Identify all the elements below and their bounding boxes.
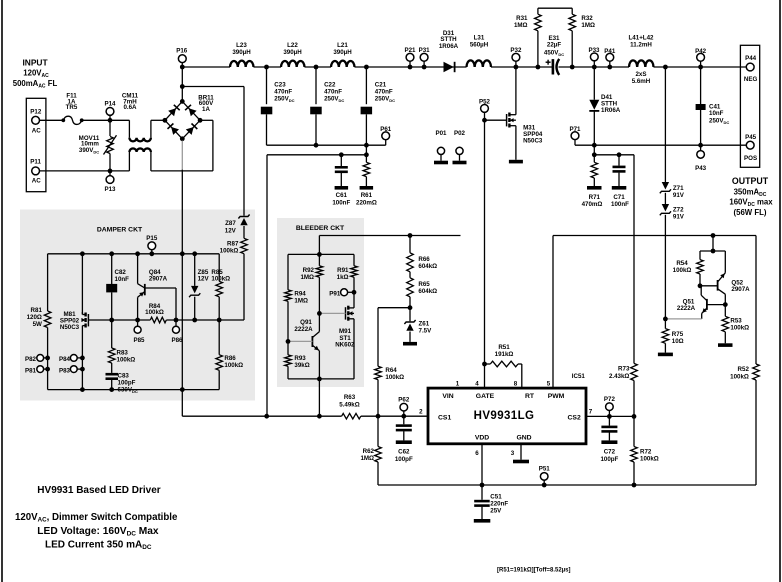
svg-text:P61: P61 (380, 126, 392, 133)
svg-text:INPUT: INPUT (22, 58, 48, 68)
svg-text:[R51=191kΩ][Toff=8.52µs]: [R51=191kΩ][Toff=8.52µs] (497, 567, 571, 573)
svg-text:P52: P52 (479, 99, 491, 106)
svg-text:5.6mH: 5.6mH (632, 78, 651, 85)
capacitor C22 (315, 67, 317, 104)
resistor R64 (377, 308, 379, 367)
Q51 emitter wire (665, 318, 701, 320)
svg-text:LED Current 350 mADC: LED Current 350 mADC (45, 539, 152, 551)
transistor Q52 (698, 283, 703, 288)
terminal P61 (382, 132, 390, 140)
svg-text:390µH: 390µH (333, 49, 352, 56)
svg-text:P31: P31 (419, 47, 431, 54)
svg-text:5W: 5W (33, 321, 42, 328)
fuse F11 (61, 118, 65, 122)
svg-text:1MΩ: 1MΩ (360, 455, 374, 462)
terminal P42 (697, 53, 705, 61)
svg-text:P15: P15 (146, 235, 158, 242)
svg-text:5.49kΩ: 5.49kΩ (339, 402, 359, 409)
terminal P12 (32, 116, 40, 124)
page border right (779, 0, 781, 582)
svg-text:604kΩ: 604kΩ (418, 288, 437, 295)
svg-text:500mAAC FL: 500mAAC FL (13, 79, 58, 90)
terminal P01 (437, 147, 444, 154)
svg-text:L21: L21 (337, 42, 348, 49)
svg-text:R66: R66 (418, 256, 430, 263)
svg-text:100kΩ: 100kΩ (640, 456, 659, 463)
svg-text:R52: R52 (738, 366, 750, 373)
svg-text:NEG: NEG (744, 76, 758, 83)
wire P12 to fuse (40, 119, 64, 121)
bleeder top rail (288, 253, 354, 255)
inductor L41+L42 (629, 60, 654, 67)
svg-text:TR5: TR5 (66, 104, 78, 111)
svg-text:LED Voltage: 160VDC Max: LED Voltage: 160VDC Max (37, 526, 159, 538)
svg-text:25V: 25V (490, 508, 502, 515)
MOSFET M81 (81, 254, 83, 315)
svg-text:GND: GND (516, 434, 531, 441)
svg-text:R71: R71 (589, 194, 601, 201)
svg-text:R87: R87 (227, 240, 239, 247)
capacitor C23 (266, 67, 268, 104)
terminal P11 (32, 167, 40, 175)
svg-text:100kΩ: 100kΩ (730, 325, 749, 332)
inductor L22 (281, 61, 305, 67)
resistor R86 (218, 320, 220, 355)
terminal P14 (106, 108, 114, 116)
wire bleeder to CS1 (318, 379, 320, 416)
svg-text:100pF: 100pF (600, 456, 618, 463)
svg-text:C83: C83 (118, 372, 130, 379)
bleeder circuit box (277, 218, 364, 387)
svg-text:CS2: CS2 (568, 414, 581, 421)
svg-text:P62: P62 (398, 396, 410, 403)
svg-text:R73: R73 (618, 366, 630, 373)
svg-text:0.6A: 0.6A (123, 104, 137, 111)
CS1 sense line (182, 415, 341, 417)
pin 5 PWM wire (552, 236, 554, 389)
svg-text:GATE: GATE (476, 393, 495, 400)
node P14 junction (108, 118, 113, 123)
resistor R84 (150, 317, 166, 323)
transistor Q51 (706, 299, 708, 310)
svg-text:6: 6 (475, 450, 479, 457)
svg-text:100kΩ: 100kΩ (730, 373, 749, 380)
svg-text:R83: R83 (117, 350, 129, 357)
wire P11 to CM11 (40, 170, 130, 172)
terminal P81 (37, 366, 44, 373)
svg-text:100pF: 100pF (118, 379, 136, 386)
resistor R51 (482, 362, 487, 367)
svg-text:N50C3: N50C3 (523, 138, 543, 145)
resistor R94 (287, 254, 289, 290)
svg-text:P21: P21 (404, 47, 416, 54)
capacitor C51 (481, 485, 483, 500)
svg-text:VIN: VIN (442, 393, 453, 400)
svg-text:220mΩ: 220mΩ (356, 200, 377, 207)
svg-text:R91: R91 (337, 267, 349, 274)
svg-text:R53: R53 (730, 318, 742, 325)
capacitor C72 (608, 416, 610, 425)
svg-text:220nF: 220nF (490, 501, 508, 508)
svg-text:12V: 12V (198, 276, 210, 283)
wire (491, 66, 552, 68)
top rail (182, 66, 230, 68)
svg-text:L22: L22 (287, 42, 298, 49)
svg-text:C51: C51 (490, 494, 502, 501)
svg-text:R94: R94 (294, 290, 306, 297)
resistor R73 (631, 363, 638, 380)
capacitor C82 (111, 254, 113, 284)
svg-text:22µF: 22µF (547, 42, 561, 49)
svg-text:P02: P02 (454, 130, 466, 137)
svg-text:1MΩ: 1MΩ (294, 297, 308, 304)
svg-text:R65: R65 (418, 281, 430, 288)
resistor R91 (353, 254, 355, 265)
svg-text:191kΩ: 191kΩ (495, 351, 514, 358)
svg-text:4: 4 (475, 380, 479, 387)
wire C71 node to R73 (633, 155, 635, 364)
capacitor C71 (618, 155, 620, 166)
wire sense rail to CS1 (266, 155, 268, 416)
output terminal box (740, 45, 759, 167)
svg-text:R61: R61 (361, 192, 373, 199)
damper top rail (48, 253, 220, 255)
resistor R93 (287, 341, 289, 355)
wire (166, 319, 244, 321)
terminal P91 (341, 289, 348, 296)
svg-text:PWM: PWM (548, 393, 565, 400)
svg-text:AC: AC (32, 177, 41, 184)
wire bridge dc minus (181, 141, 183, 170)
svg-text:5: 5 (547, 380, 551, 387)
node P13 junction (108, 169, 113, 174)
svg-text:10Ω: 10Ω (672, 338, 684, 345)
resistor R92 (318, 254, 320, 265)
svg-text:100kΩ: 100kΩ (220, 248, 239, 255)
terminal P83 (70, 366, 77, 373)
resistor R65 (409, 272, 411, 278)
transistor Q84 (137, 254, 139, 284)
svg-text:P01: P01 (435, 130, 447, 137)
svg-text:C62: C62 (398, 449, 410, 456)
svg-text:P71: P71 (569, 126, 581, 133)
MOSFET M91 (353, 292, 355, 308)
svg-text:P51: P51 (539, 465, 551, 472)
resistor R87 (241, 238, 248, 253)
svg-text:P32: P32 (510, 47, 522, 54)
svg-text:1kΩ: 1kΩ (337, 274, 349, 281)
diode D41 (593, 67, 595, 100)
resistor R72 (633, 416, 635, 446)
PWM rail (553, 235, 756, 237)
Q84 base wire (145, 287, 176, 289)
resistor R71 (593, 155, 595, 163)
resistor R66 (408, 233, 413, 238)
svg-text:R64: R64 (385, 367, 397, 374)
terminal P43 (700, 145, 702, 150)
MOSFET M31 (515, 67, 517, 115)
cap bottom rail (267, 144, 386, 146)
terminal P33 (590, 53, 598, 61)
svg-text:100kΩ: 100kΩ (673, 267, 692, 274)
svg-text:1A: 1A (202, 106, 210, 113)
svg-text:1R06A: 1R06A (439, 43, 459, 50)
terminal P51 (540, 473, 548, 481)
svg-text:10nF: 10nF (709, 110, 724, 117)
svg-text:R92: R92 (303, 267, 315, 274)
terminal P15 (148, 242, 156, 250)
svg-text:L23: L23 (236, 42, 247, 49)
terminal P52 (481, 105, 489, 113)
svg-text:470nF: 470nF (375, 88, 393, 95)
resistor R85 (218, 254, 220, 281)
svg-text:P42: P42 (695, 48, 707, 55)
svg-text:P45: P45 (745, 134, 757, 141)
electrolytic capacitor E31 (552, 59, 555, 74)
bleeder bottom rail (288, 378, 354, 380)
resistor R62 (377, 416, 379, 446)
resistor R54 (699, 251, 701, 260)
svg-text:100pF: 100pF (395, 456, 413, 463)
svg-text:IC51: IC51 (572, 373, 586, 380)
wire Z61 node to R64 (378, 307, 410, 309)
page border left (1, 0, 3, 582)
capacitor C41 (700, 67, 702, 104)
svg-text:100kΩ: 100kΩ (117, 357, 136, 364)
wire CM11 to bridge AC2 (151, 170, 213, 172)
svg-text:P82: P82 (25, 356, 37, 363)
capacitor C21 (365, 67, 367, 104)
wire (305, 66, 332, 68)
svg-text:Z87: Z87 (225, 220, 236, 227)
wire (254, 66, 282, 68)
capacitor C62 (403, 416, 405, 424)
svg-text:P16: P16 (176, 47, 188, 54)
svg-text:P72: P72 (604, 396, 616, 403)
svg-text:P84: P84 (59, 356, 71, 363)
M81 gate wire (88, 319, 111, 321)
wire (355, 66, 467, 68)
svg-text:POS: POS (744, 155, 757, 162)
svg-text:C82: C82 (115, 269, 127, 276)
svg-text:P44: P44 (745, 55, 757, 62)
svg-text:91V: 91V (673, 192, 685, 199)
svg-text:R51: R51 (498, 344, 510, 351)
svg-text:P91: P91 (329, 290, 341, 297)
svg-text:120Ω: 120Ω (27, 314, 42, 321)
svg-text:R75: R75 (672, 331, 684, 338)
svg-text:7.5V: 7.5V (419, 327, 433, 334)
svg-text:100nF: 100nF (332, 200, 350, 207)
capacitor C61 (340, 155, 342, 166)
svg-text:P41: P41 (604, 48, 616, 55)
svg-text:HV9931LG: HV9931LG (474, 410, 535, 422)
svg-text:Z72: Z72 (673, 206, 684, 213)
terminal P41 (606, 53, 614, 61)
svg-text:VDD: VDD (475, 434, 489, 441)
svg-text:39kΩ: 39kΩ (294, 362, 309, 369)
resistors R31 R32 bleed pair (538, 7, 572, 9)
svg-text:10nF: 10nF (115, 276, 130, 283)
wire (712, 236, 714, 252)
svg-text:CS1: CS1 (438, 414, 451, 421)
svg-text:P12: P12 (30, 109, 42, 116)
svg-text:P86: P86 (171, 337, 183, 344)
terminal P72 (606, 403, 614, 411)
wire (654, 66, 747, 68)
svg-text:R54: R54 (676, 260, 688, 267)
terminal P86 (175, 320, 177, 326)
svg-text:P85: P85 (133, 337, 145, 344)
svg-text:R81: R81 (31, 307, 43, 314)
svg-text:1: 1 (456, 380, 460, 387)
Q91 base wire (288, 340, 312, 342)
svg-text:2222A: 2222A (677, 305, 696, 312)
terminal P21 (406, 53, 414, 61)
capacitor C83 (106, 373, 119, 376)
svg-text:3: 3 (511, 450, 515, 457)
gate column (484, 120, 486, 388)
terminal P44 (746, 63, 754, 71)
terminal P45 (746, 141, 754, 149)
CS2 sense link (593, 145, 595, 155)
svg-text:P11: P11 (30, 159, 41, 166)
svg-text:11.2mH: 11.2mH (630, 41, 652, 48)
svg-text:DAMPER CKT: DAMPER CKT (97, 226, 143, 233)
svg-text:390µH: 390µH (232, 49, 251, 56)
svg-text:C72: C72 (604, 449, 616, 456)
wire bridge node to clamp (182, 86, 244, 88)
svg-text:OUTPUT: OUTPUT (732, 176, 769, 186)
pin 3 GND wire (520, 444, 522, 460)
svg-text:N50C3: N50C3 (60, 324, 80, 331)
terminal P32 (512, 53, 520, 61)
pin 6 VDD wire (481, 444, 483, 485)
svg-text:2907A: 2907A (149, 276, 168, 283)
svg-text:NK60Z: NK60Z (335, 342, 355, 349)
bleeder feed wire (319, 235, 460, 237)
svg-text:P81: P81 (25, 367, 37, 374)
svg-text:470nF: 470nF (324, 88, 342, 95)
svg-text:P33: P33 (588, 47, 600, 54)
svg-text:100kΩ: 100kΩ (211, 276, 230, 283)
M91 gate wire (319, 312, 345, 314)
svg-text:604kΩ: 604kΩ (418, 263, 437, 270)
CS2 wire (586, 415, 634, 417)
svg-text:BLEEDER CKT: BLEEDER CKT (296, 225, 345, 232)
terminal P85 (137, 320, 139, 326)
op-amp IC51 HV9931LG (428, 388, 586, 444)
zener Z61 (404, 320, 415, 324)
zener Z87 (238, 215, 249, 219)
zener Z72 (664, 193, 666, 204)
svg-text:100kΩ: 100kΩ (385, 374, 404, 381)
terminal P16 (178, 55, 186, 63)
varistor MOV11 (109, 120, 111, 136)
resistor R75 (664, 319, 666, 329)
svg-text:C71: C71 (613, 194, 625, 201)
terminal P82 (37, 355, 44, 362)
svg-text:12V: 12V (225, 227, 237, 234)
svg-text:P83: P83 (59, 367, 71, 374)
svg-text:P43: P43 (695, 165, 707, 172)
input terminal box (26, 98, 46, 191)
svg-text:R86: R86 (224, 355, 236, 362)
svg-text:R93: R93 (294, 355, 306, 362)
svg-text:Z71: Z71 (673, 185, 684, 192)
POS rail (575, 144, 746, 146)
svg-text:1R06A: 1R06A (601, 107, 621, 114)
terminal P62 (400, 403, 408, 411)
svg-text:390µH: 390µH (283, 49, 302, 56)
terminal P84 (70, 355, 77, 362)
svg-text:R62: R62 (363, 448, 375, 455)
zener Z85 (194, 254, 196, 286)
svg-text:91V: 91V (673, 213, 685, 220)
resistor R83 (111, 320, 113, 348)
svg-text:2907A: 2907A (731, 286, 750, 293)
svg-text:R63: R63 (344, 394, 356, 401)
svg-text:1MΩ: 1MΩ (514, 22, 528, 29)
wire damper to CS1 (181, 390, 183, 417)
resistor R61 (365, 155, 367, 163)
terminal P13 (106, 176, 114, 184)
diode D31 (444, 62, 454, 72)
wire zener chain down (664, 215, 666, 319)
resistor R53 (724, 305, 726, 317)
svg-text:2.43kΩ: 2.43kΩ (609, 373, 629, 380)
wire (559, 66, 630, 68)
bridge rectifier BR11 (165, 101, 182, 120)
terminal P71 (571, 132, 579, 140)
wire (361, 415, 428, 417)
svg-text:C61: C61 (336, 192, 348, 199)
svg-text:2xS: 2xS (635, 71, 646, 78)
svg-text:7: 7 (589, 408, 593, 415)
wire fuse to CM11 (82, 119, 130, 121)
svg-text:P13: P13 (104, 186, 116, 193)
svg-text:AC: AC (32, 127, 41, 134)
svg-text:P14: P14 (104, 100, 116, 107)
inductor L23 (230, 61, 254, 67)
svg-text:1MΩ: 1MΩ (300, 274, 314, 281)
resistor R63 (342, 413, 361, 419)
M31 gate wire (485, 119, 507, 121)
wire CM11 to bridge AC1 (151, 119, 165, 121)
resistor R81 (47, 254, 49, 311)
svg-text:100kΩ: 100kΩ (145, 309, 164, 316)
terminal P31 (420, 53, 428, 61)
transistor Q91 (318, 313, 320, 331)
inductor L21 (331, 61, 355, 67)
svg-text:470mΩ: 470mΩ (582, 201, 603, 208)
svg-text:R72: R72 (640, 448, 652, 455)
terminal P02 (456, 147, 463, 154)
resistor R52 (755, 236, 757, 365)
inductor L31 (467, 60, 492, 67)
damper bottom rail (48, 389, 220, 391)
svg-text:8: 8 (514, 380, 518, 387)
svg-text:(56W FL): (56W FL) (734, 208, 767, 217)
svg-text:Z61: Z61 (419, 320, 430, 327)
damper circuit box (20, 210, 255, 401)
damper node line (112, 319, 151, 321)
svg-text:2222A: 2222A (294, 326, 313, 333)
svg-text:2: 2 (419, 408, 423, 415)
svg-text:100nF: 100nF (611, 201, 629, 208)
bottom rail (378, 484, 756, 486)
sense rail (267, 154, 366, 156)
